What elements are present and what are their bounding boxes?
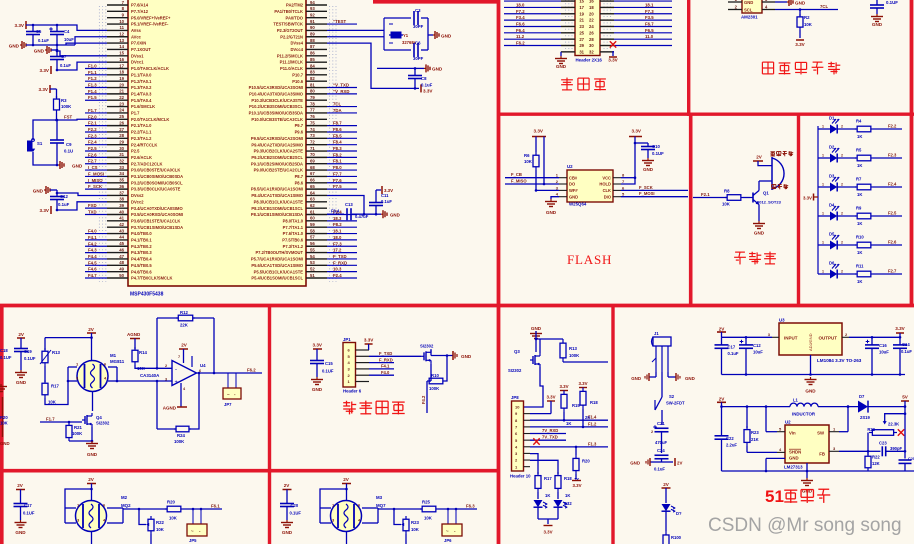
svg-text:P2.0/TA1CLK/MCLK: P2.0/TA1CLK/MCLK bbox=[131, 117, 169, 122]
svg-text:OUTPUT: OUTPUT bbox=[819, 336, 838, 341]
svg-text:1: 1 bbox=[822, 212, 824, 216]
ground GND U2b bbox=[806, 463, 808, 478]
svg-text:3.3V: 3.3V bbox=[313, 343, 323, 348]
wire DVss4 to 3.3V rail bbox=[327, 43, 419, 88]
svg-text:MG811: MG811 bbox=[110, 359, 125, 364]
svg-text:10K: 10K bbox=[169, 516, 178, 521]
svg-text:+: + bbox=[175, 380, 178, 386]
svg-text:2V: 2V bbox=[181, 343, 188, 348]
svg-text:GND: GND bbox=[0, 441, 10, 446]
op-amp U4 CA3140A bbox=[172, 361, 197, 386]
svg-text:D5: D5 bbox=[829, 232, 835, 237]
connector JP1 Header 6 bbox=[343, 343, 356, 388]
svg-text:R18: R18 bbox=[564, 476, 572, 481]
svg-text:U2: U2 bbox=[785, 420, 791, 425]
svg-text:24: 24 bbox=[119, 108, 124, 113]
svg-text:R3: R3 bbox=[61, 98, 67, 103]
svg-text:P1.3/TA0.2: P1.3/TA0.2 bbox=[131, 85, 152, 90]
wire output rail bbox=[849, 336, 900, 338]
wire Q3 to JP8 row10 bbox=[524, 367, 544, 407]
svg-text:F6.4: F6.4 bbox=[516, 28, 525, 33]
svg-text:R5: R5 bbox=[856, 147, 862, 152]
svg-text:F_TXD: F_TXD bbox=[333, 254, 347, 259]
svg-text:F_CB: F_CB bbox=[511, 172, 522, 177]
svg-text:0.1uF: 0.1uF bbox=[901, 349, 912, 354]
svg-text:P3.3/UCB0CLK/UCA0STE: P3.3/UCB0CLK/UCA0STE bbox=[131, 187, 181, 192]
svg-text:2V: 2V bbox=[284, 483, 291, 488]
svg-text:F6.2: F6.2 bbox=[247, 368, 256, 373]
wire net F2.5 bbox=[873, 215, 902, 217]
svg-text:C12: C12 bbox=[60, 194, 68, 199]
svg-text:69: 69 bbox=[310, 159, 315, 164]
svg-text:0.1uF: 0.1uF bbox=[654, 467, 665, 472]
LED D2 bbox=[818, 157, 830, 159]
wire led join 3.3V bbox=[537, 507, 539, 519]
svg-text:7V_RXD: 7V_RXD bbox=[542, 428, 558, 433]
svg-text:INDUCTOR: INDUCTOR bbox=[792, 412, 816, 417]
svg-text:P1.7: P1.7 bbox=[131, 111, 140, 116]
LED D32 bbox=[537, 492, 539, 499]
resistor R17b 1K bbox=[537, 472, 539, 476]
svg-text:P10.1/UCB3SIMO/UCB3SDA: P10.1/UCB3SIMO/UCB3SDA bbox=[249, 111, 303, 116]
svg-text:C17: C17 bbox=[728, 344, 736, 349]
sensor AM2301 body bbox=[742, 0, 762, 13]
svg-text:0.1uF: 0.1uF bbox=[60, 63, 71, 68]
ground GND bluetooth cap bbox=[316, 377, 318, 380]
svg-text:0.1UF: 0.1UF bbox=[886, 0, 898, 5]
wire Q4 source to GND bbox=[91, 427, 93, 441]
svg-text:~: ~ bbox=[446, 529, 449, 534]
regulator U3 LM1084 body bbox=[779, 323, 842, 355]
wire pin13 to rail bbox=[66, 43, 107, 45]
svg-text:18.0: 18.0 bbox=[516, 2, 525, 7]
svg-text:U2: U2 bbox=[567, 164, 573, 169]
svg-text:L1: L1 bbox=[793, 398, 799, 403]
svg-text:86: 86 bbox=[310, 51, 315, 56]
svg-text:F2.4: F2.4 bbox=[333, 273, 342, 278]
svg-text:F1.2: F1.2 bbox=[88, 76, 97, 81]
svg-text:GND: GND bbox=[643, 167, 654, 172]
svg-text:GND: GND bbox=[569, 194, 578, 199]
svg-text:LM1084 3.3V TO-263: LM1084 3.3V TO-263 bbox=[817, 358, 862, 363]
resistor R20b 1K bbox=[575, 446, 578, 449]
svg-text:F1.1: F1.1 bbox=[88, 70, 97, 75]
wire pin64 branch bbox=[327, 195, 364, 214]
svg-text:F3.4: F3.4 bbox=[516, 15, 525, 20]
svg-text:2K: 2K bbox=[585, 415, 590, 420]
svg-text:P3.5/UCA0RXD/UCA0SOMI: P3.5/UCA0RXD/UCA0SOMI bbox=[131, 212, 183, 217]
wire Vin from rail bbox=[765, 407, 767, 432]
svg-text:GND: GND bbox=[312, 387, 323, 392]
svg-text:3.3V: 3.3V bbox=[423, 88, 433, 93]
svg-text:7V_TXD: 7V_TXD bbox=[542, 435, 558, 440]
svg-text:60: 60 bbox=[310, 216, 315, 221]
svg-text:1K: 1K bbox=[857, 134, 862, 139]
svg-text:C16: C16 bbox=[879, 343, 887, 348]
no-connect X on LCD pin 30 bbox=[610, 41, 616, 47]
power 3.3V right of C8 bbox=[420, 84, 422, 92]
svg-text:GND: GND bbox=[789, 456, 799, 461]
AM2301 pins bbox=[762, 1, 775, 3]
svg-text:3.3V: 3.3V bbox=[39, 87, 49, 92]
LED D1 bbox=[818, 128, 830, 130]
svg-text:55: 55 bbox=[310, 247, 315, 252]
wire R17 to sensor left pins bbox=[45, 367, 68, 405]
svg-text:C18: C18 bbox=[0, 348, 8, 353]
svg-text:10K: 10K bbox=[424, 516, 433, 521]
svg-text:C8: C8 bbox=[421, 76, 427, 81]
svg-text:P10.7: P10.7 bbox=[292, 72, 303, 77]
svg-text:43: 43 bbox=[119, 228, 124, 233]
svg-text:C7: C7 bbox=[61, 54, 67, 59]
svg-text:P2.5: P2.5 bbox=[131, 149, 140, 154]
svg-text:D2: D2 bbox=[829, 145, 835, 150]
svg-text:27: 27 bbox=[119, 127, 124, 132]
svg-text:TEST/SBWTCK: TEST/SBWTCK bbox=[273, 22, 303, 27]
svg-text:3.3V: 3.3V bbox=[15, 23, 25, 28]
wires: MCU left net-label wires bbox=[85, 63, 107, 278]
svg-text:FST: FST bbox=[64, 115, 72, 120]
svg-text:21K: 21K bbox=[751, 437, 759, 442]
svg-text:1K: 1K bbox=[565, 493, 570, 498]
svg-text:DIO: DIO bbox=[604, 194, 612, 199]
wire + resistor R6 10K pullup bbox=[535, 137, 537, 153]
svg-text:P4.1/TB0.1: P4.1/TB0.1 bbox=[131, 238, 152, 243]
svg-text:61: 61 bbox=[310, 209, 315, 214]
resistor R7 1K bbox=[837, 186, 856, 188]
svg-text:P5.5/UCB1CLK/UCA1STE: P5.5/UCB1CLK/UCA1STE bbox=[254, 269, 304, 274]
svg-text:7: 7 bbox=[178, 355, 180, 359]
svg-text:58: 58 bbox=[310, 228, 315, 233]
svg-text:R12: R12 bbox=[180, 310, 188, 315]
resistor R23b 21K bbox=[746, 407, 748, 428]
svg-text:3.3V: 3.3V bbox=[803, 196, 812, 201]
MCU pins left stubs + numbers + names bbox=[107, 0, 183, 281]
module title buzzer bbox=[735, 251, 745, 253]
svg-text:10: 10 bbox=[119, 19, 124, 24]
svg-text:R20: R20 bbox=[582, 459, 590, 464]
svg-text:23: 23 bbox=[579, 24, 584, 29]
svg-text:7CL: 7CL bbox=[820, 4, 828, 9]
ground GND AM2301 bbox=[775, 1, 787, 3]
svg-text:66: 66 bbox=[310, 178, 315, 183]
svg-text:78: 78 bbox=[310, 101, 315, 106]
svg-text:F_TXD: F_TXD bbox=[379, 351, 392, 356]
wire 2V to R13 bbox=[91, 333, 93, 361]
power rail 3.3V top-left bbox=[25, 21, 27, 29]
svg-text:F9.4: F9.4 bbox=[331, 209, 340, 214]
wires V_RXD V_TXD bbox=[530, 433, 566, 435]
wire 3.3V to VCC and HOLD bbox=[621, 137, 635, 185]
svg-text:F1.2: F1.2 bbox=[588, 422, 597, 427]
svg-text:18.3: 18.3 bbox=[333, 216, 342, 221]
svg-text:29: 29 bbox=[579, 43, 584, 48]
svg-text:34: 34 bbox=[119, 171, 124, 176]
svg-text:AM2301: AM2301 bbox=[741, 15, 758, 20]
capacitor C19 0.1UF bbox=[20, 338, 22, 349]
svg-text:PA0/TDO: PA0/TDO bbox=[286, 15, 304, 20]
svg-text:2: 2 bbox=[841, 183, 843, 187]
svg-text:91: 91 bbox=[310, 19, 315, 24]
capacitor C12 0.1uF bbox=[56, 190, 58, 197]
capacitor C11 0.1uF bbox=[375, 206, 377, 215]
svg-text:17: 17 bbox=[119, 63, 124, 68]
gas sensor M2 MQ2 bbox=[76, 501, 107, 532]
capacitor C10 0.1UF bbox=[635, 142, 648, 144]
svg-text:3.3V: 3.3V bbox=[559, 384, 568, 389]
svg-text:21: 21 bbox=[579, 18, 584, 23]
svg-text:DVss4: DVss4 bbox=[290, 41, 303, 46]
resistor R20 10K bbox=[165, 508, 167, 510]
svg-text:2V: 2V bbox=[756, 155, 763, 160]
svg-text:R17: R17 bbox=[51, 384, 59, 389]
ground rail U3 bbox=[722, 374, 906, 376]
wires JP1 nets bbox=[369, 355, 421, 357]
wires rows3-2 to LEDs bbox=[530, 454, 538, 474]
svg-text:P8.5/UCA1RXD/UCA1SOMI: P8.5/UCA1RXD/UCA1SOMI bbox=[251, 187, 303, 192]
svg-text:P9.2/UCB2SOMI/UCB2SCL: P9.2/UCB2SOMI/UCB2SCL bbox=[251, 155, 303, 160]
svg-text:1K: 1K bbox=[857, 279, 862, 284]
svg-text:10K: 10K bbox=[156, 527, 165, 532]
power 3.3V below C7 bbox=[50, 66, 52, 74]
svg-text:22K: 22K bbox=[180, 323, 189, 328]
svg-text:0.1UF: 0.1UF bbox=[652, 151, 664, 156]
svg-text:3.3V: 3.3V bbox=[895, 326, 905, 331]
diode D8 SS19 bbox=[858, 401, 868, 413]
svg-text:16: 16 bbox=[589, 0, 594, 4]
svg-text:F7.6: F7.6 bbox=[333, 178, 342, 183]
svg-text:TXD: TXD bbox=[88, 210, 97, 215]
ground GND under C10 bbox=[647, 158, 649, 161]
svg-text:10K: 10K bbox=[804, 22, 813, 27]
potentiometer R23 10K bbox=[394, 509, 401, 525]
no connect X at R22b bbox=[898, 429, 904, 435]
wire 3.3V to row2 bbox=[544, 137, 559, 185]
svg-text:F2.6: F2.6 bbox=[88, 152, 97, 157]
resistor R25 10K bbox=[420, 508, 422, 510]
power 3.3V at C11 bbox=[376, 189, 381, 191]
wire input rail bbox=[722, 336, 773, 338]
resistor R21b 12K bbox=[867, 451, 869, 455]
svg-text:C13: C13 bbox=[345, 202, 353, 207]
capacitor C23 390pF bbox=[868, 450, 881, 452]
svg-text:F4.4: F4.4 bbox=[88, 254, 97, 259]
wire C7 to DVss1 pin 15 bbox=[57, 51, 107, 56]
svg-text:1K: 1K bbox=[857, 250, 862, 255]
svg-text:F8.4: F8.4 bbox=[333, 140, 342, 145]
capacitor C4 10uF bbox=[56, 25, 58, 32]
svg-text:1K: 1K bbox=[545, 493, 550, 498]
svg-text:77: 77 bbox=[310, 108, 315, 113]
svg-text:46: 46 bbox=[119, 247, 124, 252]
svg-text:71: 71 bbox=[310, 146, 315, 151]
ground GND LCD bbox=[560, 52, 562, 56]
ground GND under C20 bbox=[286, 520, 288, 523]
svg-text:P2.4/RTCCLK: P2.4/RTCCLK bbox=[131, 142, 157, 147]
svg-text:MQ2: MQ2 bbox=[121, 503, 131, 508]
svg-text:P3.4/UCA0TXD/UCA0SIMO: P3.4/UCA0TXD/UCA0SIMO bbox=[131, 206, 183, 211]
svg-text:F_MISO: F_MISO bbox=[511, 179, 527, 184]
svg-text:12K: 12K bbox=[872, 461, 880, 466]
capacitor C25 edge bbox=[899, 459, 912, 461]
svg-text:P7.3/TA1.2: P7.3/TA1.2 bbox=[283, 244, 304, 249]
svg-text:1K: 1K bbox=[574, 477, 579, 482]
svg-text:P4.2/TB0.2: P4.2/TB0.2 bbox=[131, 244, 152, 249]
no connect X row5 bbox=[533, 438, 539, 444]
svg-text:D4: D4 bbox=[829, 203, 835, 208]
svg-text:63: 63 bbox=[310, 197, 315, 202]
svg-text:GND: GND bbox=[872, 22, 883, 27]
svg-text:3.3V: 3.3V bbox=[543, 530, 552, 535]
svg-text:F2.6: F2.6 bbox=[888, 240, 897, 245]
wire net F2.6 bbox=[873, 244, 902, 246]
capacitor 0.1UF top right bbox=[876, 0, 878, 5]
svg-text:2V: 2V bbox=[663, 482, 670, 487]
svg-text:87: 87 bbox=[310, 44, 315, 49]
svg-text:P2.2/TA1.1: P2.2/TA1.1 bbox=[131, 130, 152, 135]
svg-text:I_CS: I_CS bbox=[88, 165, 98, 170]
svg-text:51: 51 bbox=[310, 273, 315, 278]
wire net F2.2 bbox=[873, 128, 902, 130]
svg-text:F2.7: F2.7 bbox=[888, 269, 897, 274]
svg-text:0.1UF: 0.1UF bbox=[23, 511, 35, 516]
svg-text:44: 44 bbox=[119, 235, 124, 240]
svg-text:2V: 2V bbox=[88, 327, 95, 332]
svg-text:18.1: 18.1 bbox=[645, 2, 654, 7]
svg-text:P10.3/UCB3CLK/UCA3STE: P10.3/UCB3CLK/UCA3STE bbox=[251, 98, 303, 103]
svg-text:R13: R13 bbox=[52, 350, 60, 355]
svg-text:~: ~ bbox=[191, 529, 194, 534]
svg-text:64: 64 bbox=[310, 190, 315, 195]
ground GND under U2 pin4 bbox=[551, 197, 559, 199]
svg-text:F_RXD: F_RXD bbox=[379, 357, 393, 362]
svg-text:R23: R23 bbox=[751, 430, 759, 435]
wire F_SCK bbox=[621, 189, 688, 191]
svg-text:P11.1/MCLK: P11.1/MCLK bbox=[280, 60, 303, 65]
svg-text:P10.2/UCB3SOMI/UCB3SCL: P10.2/UCB3SOMI/UCB3SCL bbox=[249, 104, 303, 109]
svg-text:C15: C15 bbox=[325, 361, 333, 366]
svg-text:P9.1/UCB2SIMO/UCB2SDA: P9.1/UCB2SIMO/UCB2SDA bbox=[251, 161, 303, 166]
svg-text:9012_SOT23: 9012_SOT23 bbox=[757, 199, 782, 204]
svg-text:C6: C6 bbox=[415, 41, 421, 46]
svg-text:F1.7: F1.7 bbox=[88, 108, 97, 113]
svg-text:JP5: JP5 bbox=[189, 538, 197, 543]
svg-text:F2.1: F2.1 bbox=[701, 192, 710, 197]
svg-text:0.1uF: 0.1uF bbox=[58, 202, 70, 207]
capacitor C9 0.1U bbox=[56, 120, 58, 140]
MCU pins right stubs + numbers + names bbox=[249, 0, 327, 281]
svg-text:F2.3: F2.3 bbox=[88, 133, 97, 138]
ground GND at S1 bbox=[56, 164, 59, 167]
svg-text:FXD: FXD bbox=[88, 203, 97, 208]
svg-text:10.3: 10.3 bbox=[333, 267, 342, 272]
svg-text:15: 15 bbox=[119, 51, 124, 56]
wire 5V vertical right bbox=[904, 401, 906, 459]
svg-text:F2.4: F2.4 bbox=[888, 182, 897, 187]
svg-text:F6.5: F6.5 bbox=[645, 28, 654, 33]
resistor R10 1K bbox=[837, 244, 856, 246]
svg-text:PA2/TM2: PA2/TM2 bbox=[286, 3, 304, 8]
svg-text:3.3V: 3.3V bbox=[546, 395, 555, 400]
ground GND under C19 bbox=[20, 370, 22, 373]
svg-text:47: 47 bbox=[119, 254, 124, 259]
svg-text:Q1: Q1 bbox=[763, 191, 769, 196]
svg-text:90: 90 bbox=[310, 25, 315, 30]
svg-text:F8.2: F8.2 bbox=[333, 152, 342, 157]
svg-text:DVss1: DVss1 bbox=[131, 53, 144, 58]
svg-text:38: 38 bbox=[119, 197, 124, 202]
module title bluetooth bbox=[343, 402, 350, 404]
svg-text:P3.1/UCB0SIMO/UCB0SDA: P3.1/UCB0SIMO/UCB0SDA bbox=[131, 174, 183, 179]
svg-text:P3.0/UCB0STE/UCA0CLK: P3.0/UCB0STE/UCA0CLK bbox=[131, 168, 180, 173]
svg-text:R13: R13 bbox=[569, 346, 577, 351]
svg-text:P7.6/A14: P7.6/A14 bbox=[131, 3, 149, 8]
svg-text:19: 19 bbox=[119, 76, 124, 81]
svg-text:P2.1/TA1.0: P2.1/TA1.0 bbox=[131, 123, 152, 128]
svg-text:1K: 1K bbox=[857, 192, 862, 197]
capacitor C20 0.1UF bbox=[286, 490, 288, 504]
svg-text:13: 13 bbox=[119, 38, 124, 43]
ground GND buzzer bbox=[758, 221, 760, 224]
svg-text:F6.6: F6.6 bbox=[516, 21, 525, 26]
svg-text:F7.3: F7.3 bbox=[645, 9, 654, 14]
power 3.3V LCD bbox=[613, 52, 614, 56]
svg-text:7DA: 7DA bbox=[333, 108, 342, 113]
capacitor C12b 10uF bbox=[745, 337, 747, 345]
wire to DVss2 pin 37 bbox=[50, 189, 57, 191]
svg-text:25: 25 bbox=[119, 114, 124, 119]
svg-text:19: 19 bbox=[579, 11, 584, 16]
svg-text:82: 82 bbox=[310, 76, 315, 81]
svg-text:0.1U: 0.1U bbox=[64, 149, 73, 154]
svg-text:3.3V: 3.3V bbox=[572, 483, 581, 488]
svg-text:P11.2/SMCLK: P11.2/SMCLK bbox=[277, 53, 303, 58]
svg-text:3.3V: 3.3V bbox=[384, 188, 393, 193]
svg-text:P7.7/A12: P7.7/A12 bbox=[131, 9, 149, 14]
module title LCD bbox=[561, 79, 573, 81]
svg-text:GND: GND bbox=[795, 0, 806, 5]
svg-text:11.0: 11.0 bbox=[645, 34, 654, 39]
svg-text:3.3V: 3.3V bbox=[608, 58, 618, 63]
svg-text:F4.7: F4.7 bbox=[88, 273, 97, 278]
wire sensor right pins bbox=[108, 366, 117, 368]
LED D6 bbox=[818, 273, 830, 275]
svg-text:1K: 1K bbox=[857, 221, 862, 226]
svg-text:53: 53 bbox=[310, 260, 315, 265]
LCD header JP2 Header 2X16 body bbox=[575, 0, 600, 56]
svg-text:54: 54 bbox=[310, 254, 315, 259]
svg-text:2: 2 bbox=[841, 270, 843, 274]
svg-text:DVcc4: DVcc4 bbox=[290, 47, 303, 52]
svg-text:GND: GND bbox=[630, 461, 640, 466]
svg-text:89: 89 bbox=[310, 32, 315, 37]
svg-text:P4.6/TB0.6: P4.6/TB0.6 bbox=[131, 269, 152, 274]
svg-text:2V: 2V bbox=[88, 477, 95, 482]
svg-text:F4.1: F4.1 bbox=[88, 235, 97, 240]
svg-text:25: 25 bbox=[579, 30, 584, 35]
svg-text:SI2302: SI2302 bbox=[508, 368, 522, 373]
svg-text:P8.4/UCA1TXD/UCA1SIMO: P8.4/UCA1TXD/UCA1SIMO bbox=[251, 193, 303, 198]
svg-text:30PF: 30PF bbox=[413, 24, 424, 29]
svg-text:R100: R100 bbox=[671, 535, 682, 540]
svg-text:P1.5/TA0.4: P1.5/TA0.4 bbox=[131, 98, 152, 103]
svg-text:15.1: 15.1 bbox=[645, 0, 654, 1]
svg-text:F1.0: F1.0 bbox=[88, 63, 97, 68]
node RST bbox=[56, 113, 58, 120]
wire XOUT to crystal bbox=[327, 36, 384, 38]
svg-text:C19: C19 bbox=[24, 349, 32, 354]
svg-text:F2.3: F2.3 bbox=[888, 153, 897, 158]
